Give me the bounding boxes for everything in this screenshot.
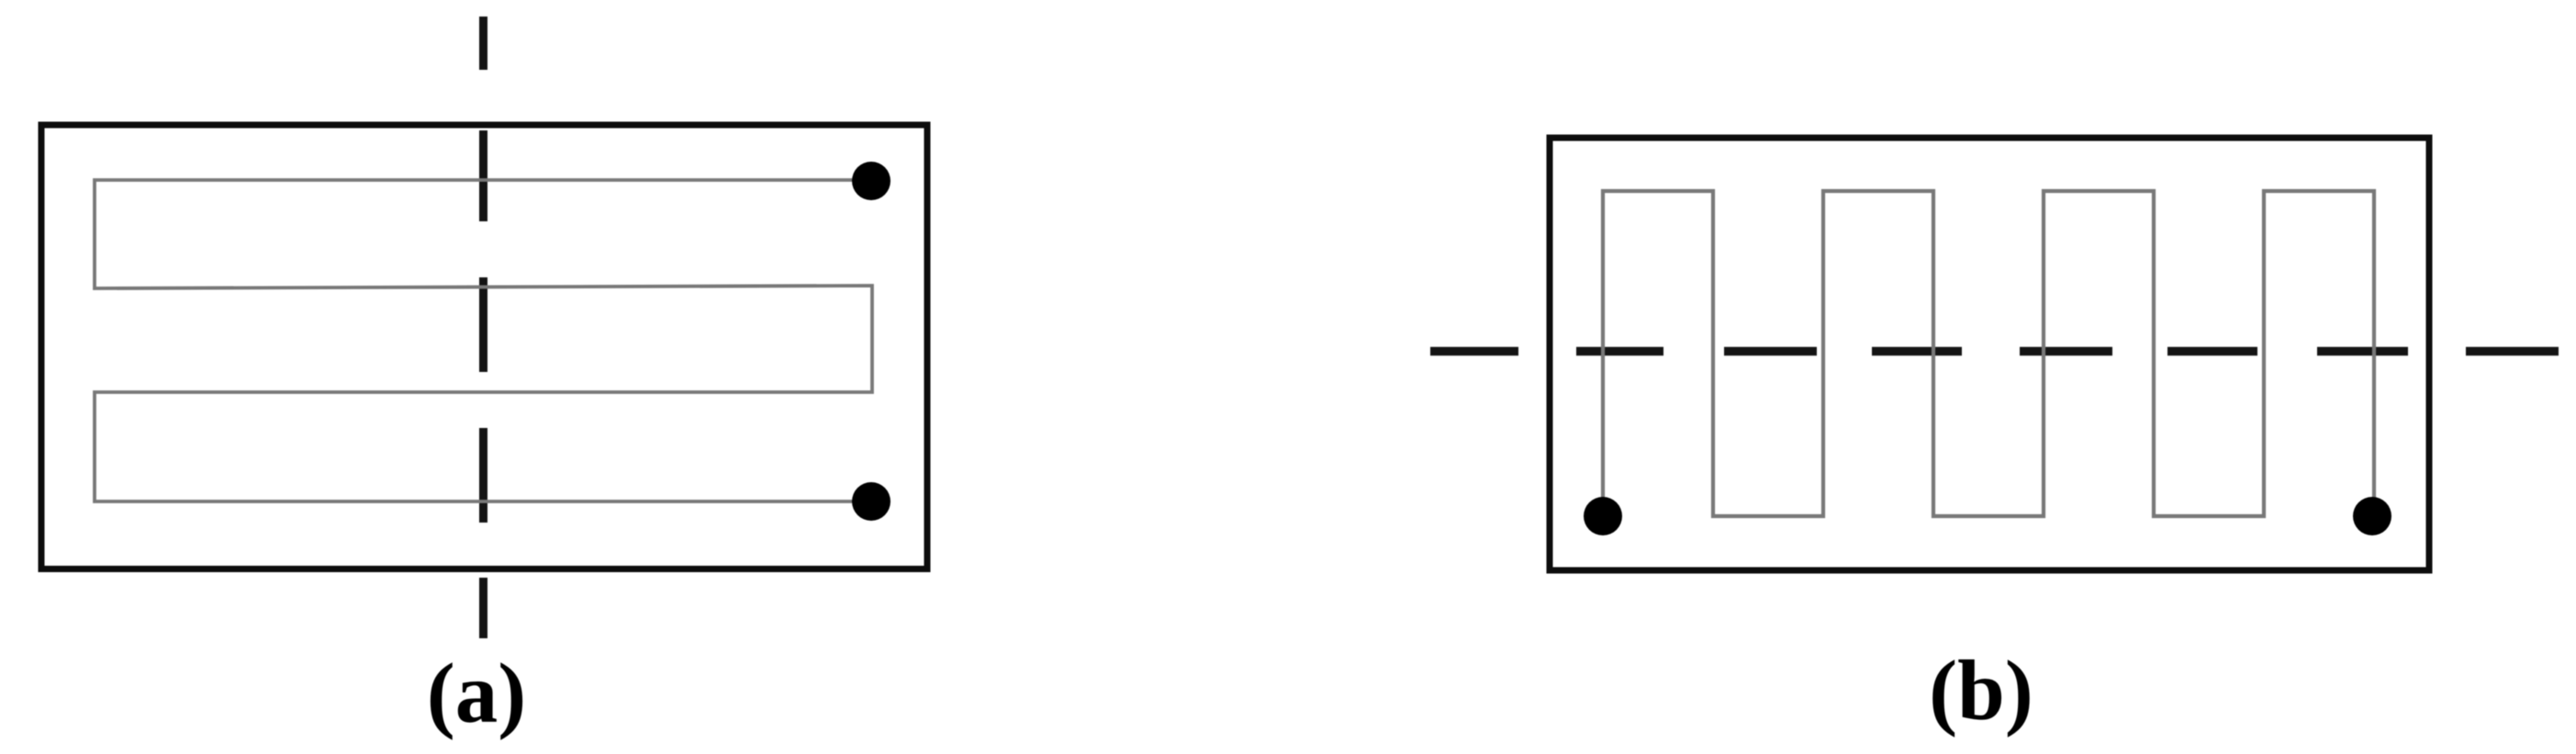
terminal dot (b) right — [2353, 497, 2391, 535]
symmetry axis (b), dashed horizontal line — [1430, 347, 2559, 356]
svg-text:(b): (b) — [1929, 644, 2033, 738]
svg-text:(a): (a) — [427, 647, 526, 741]
coil substrate outline (b) — [1550, 138, 2429, 570]
symmetry axis (a), dashed vertical line — [479, 17, 487, 638]
terminal dot (b) left — [1584, 497, 1622, 535]
terminal dot (a) top — [852, 162, 890, 200]
coil substrate outline (a) — [41, 125, 927, 569]
meander coil winding (b), serpentine wire — [1603, 191, 2374, 516]
meander coil winding (a), serpentine wire — [95, 180, 872, 501]
terminal dot (a) bottom — [852, 482, 890, 521]
